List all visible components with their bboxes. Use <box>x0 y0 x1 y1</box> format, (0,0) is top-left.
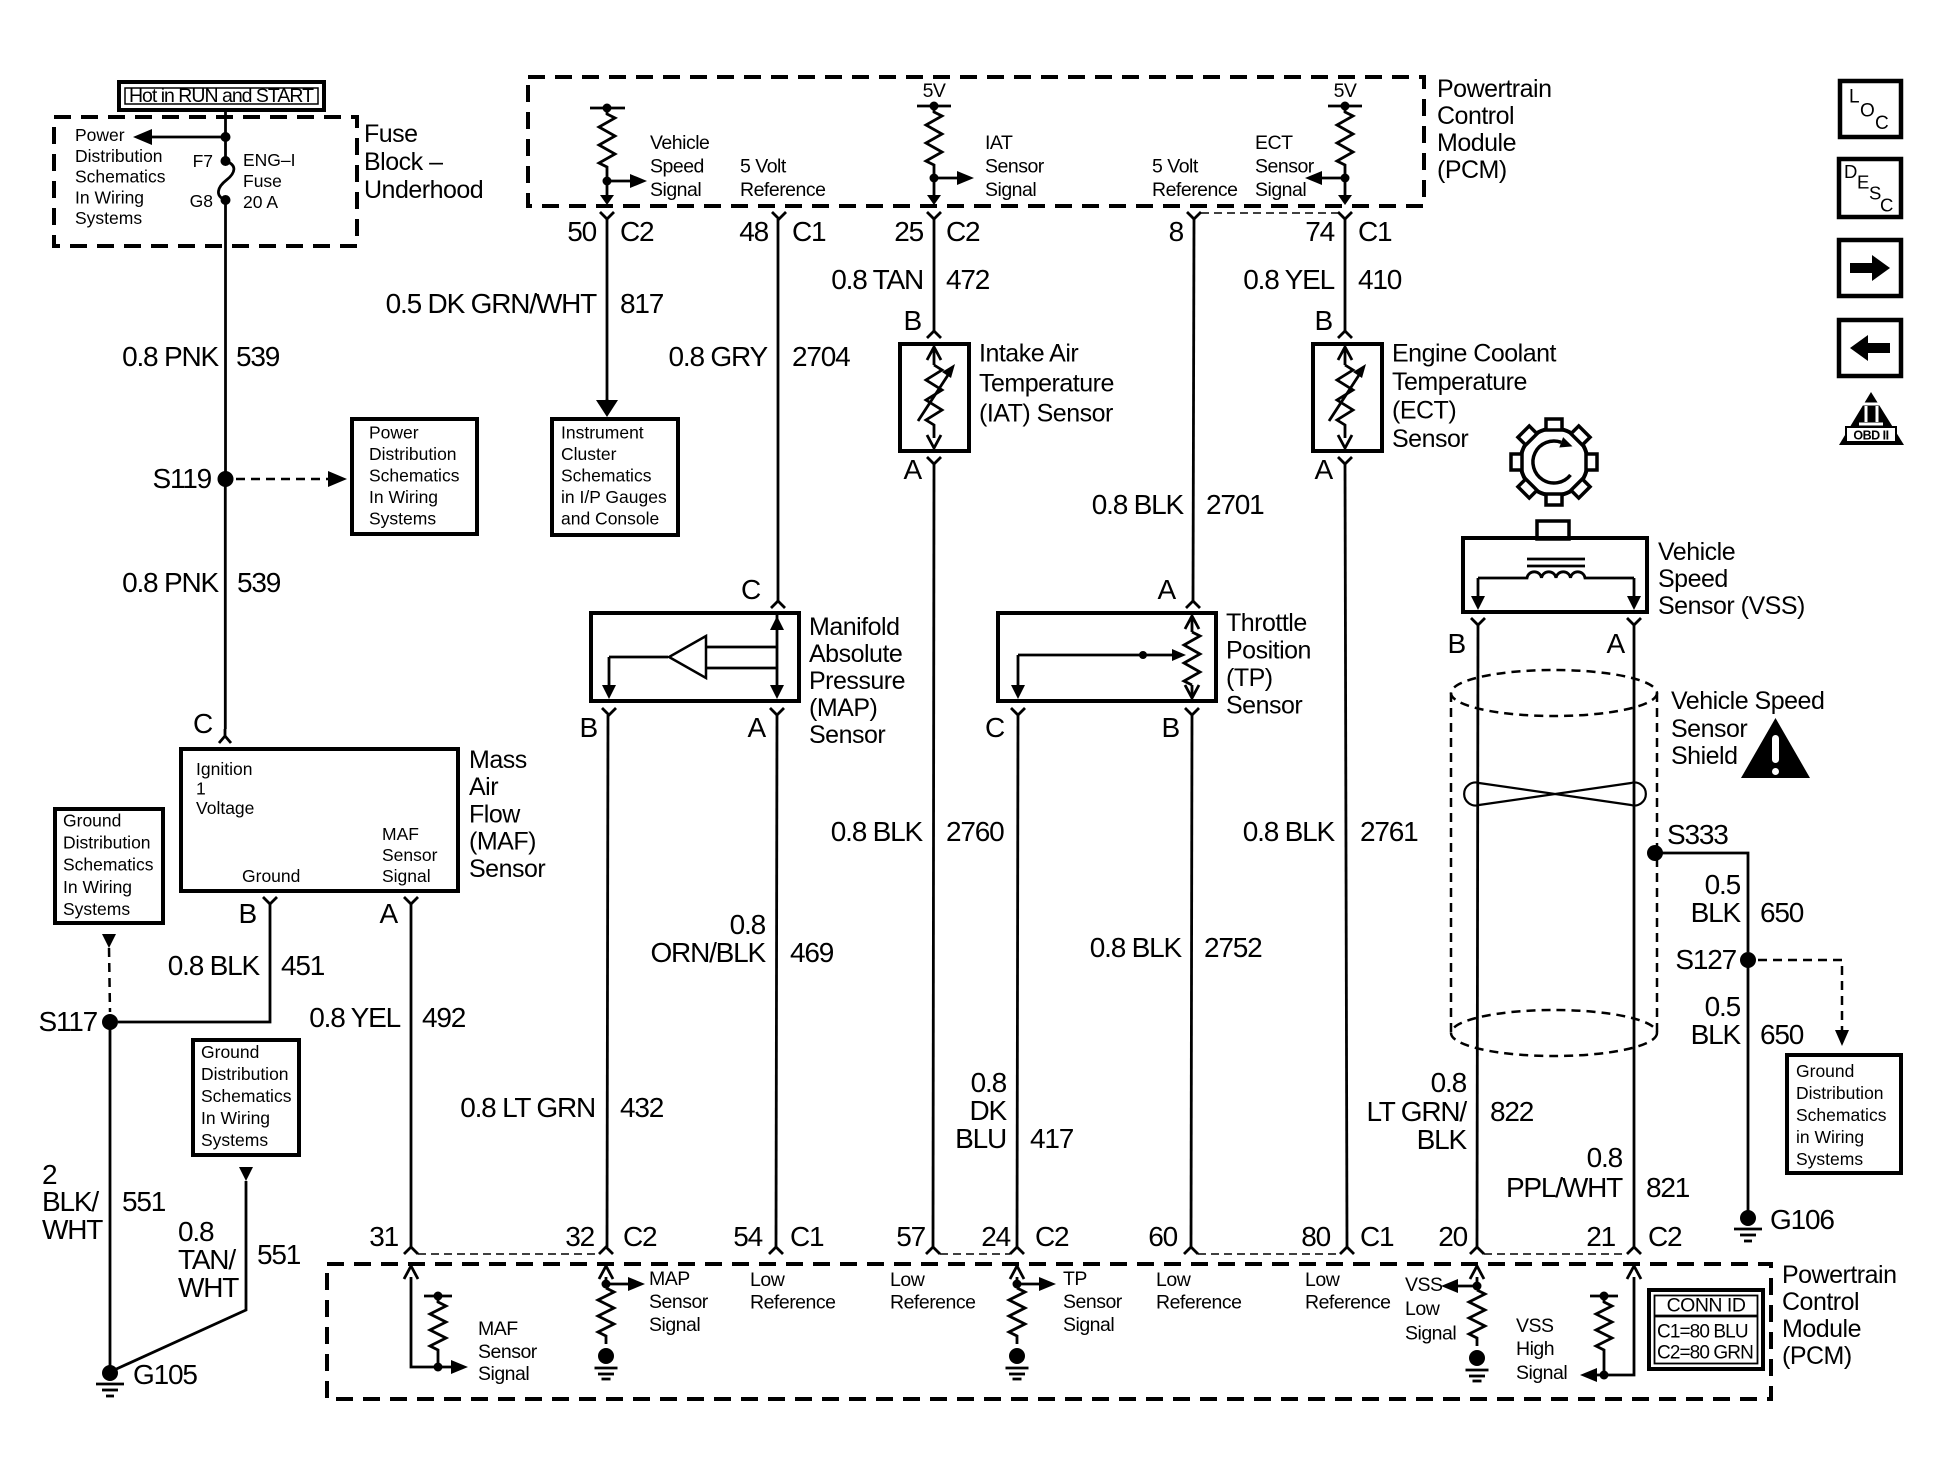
svg-text:BLK/: BLK/ <box>42 1186 99 1217</box>
svg-text:Block –: Block – <box>364 148 443 176</box>
svg-text:Absolute: Absolute <box>809 640 902 668</box>
svg-text:Sensor: Sensor <box>1226 692 1302 720</box>
svg-text:Flow: Flow <box>469 801 521 829</box>
svg-text:Signal: Signal <box>478 1363 529 1385</box>
svg-text:Vehicle Speed: Vehicle Speed <box>1671 687 1824 715</box>
svg-text:Signal: Signal <box>1063 1314 1114 1336</box>
svg-text:469: 469 <box>790 937 834 968</box>
svg-text:0.8: 0.8 <box>730 909 766 940</box>
svg-text:D: D <box>1844 161 1857 182</box>
svg-text:A: A <box>1158 574 1177 605</box>
svg-text:(PCM): (PCM) <box>1437 156 1507 184</box>
svg-text:Position: Position <box>1226 637 1311 665</box>
svg-text:0.8 TAN: 0.8 TAN <box>831 264 923 295</box>
svg-text:0.8 YEL: 0.8 YEL <box>1243 264 1334 295</box>
svg-text:A: A <box>1315 454 1334 485</box>
svg-text:Pressure: Pressure <box>809 667 905 695</box>
svg-text:Sensor: Sensor <box>1671 715 1747 743</box>
svg-text:C: C <box>985 712 1005 743</box>
svg-text:In Wiring: In Wiring <box>369 487 438 507</box>
svg-text:Schematics: Schematics <box>201 1086 292 1106</box>
svg-text:A: A <box>748 712 767 743</box>
svg-text:in Wiring: in Wiring <box>1796 1127 1864 1147</box>
svg-text:B: B <box>239 898 257 929</box>
svg-text:0.8 BLK: 0.8 BLK <box>1090 932 1183 963</box>
svg-text:0.5 DK GRN/WHT: 0.5 DK GRN/WHT <box>386 288 597 319</box>
svg-text:Ground: Ground <box>1796 1061 1854 1081</box>
svg-text:Reference: Reference <box>750 1292 835 1314</box>
svg-text:LT GRN/: LT GRN/ <box>1367 1096 1468 1127</box>
svg-text:Voltage: Voltage <box>196 798 254 818</box>
svg-text:0.8: 0.8 <box>1587 1142 1623 1173</box>
svg-text:Systems: Systems <box>201 1130 268 1150</box>
svg-text:32: 32 <box>565 1221 594 1252</box>
svg-text:C2: C2 <box>1648 1221 1682 1252</box>
svg-text:B: B <box>1162 712 1180 743</box>
svg-text:Vehicle: Vehicle <box>1658 538 1735 566</box>
svg-text:Signal: Signal <box>649 1314 700 1336</box>
svg-text:822: 822 <box>1490 1096 1534 1127</box>
svg-text:451: 451 <box>281 950 325 981</box>
svg-text:Vehicle: Vehicle <box>650 132 709 154</box>
svg-text:BLK: BLK <box>1691 897 1742 928</box>
svg-text:Temperature: Temperature <box>1392 368 1527 396</box>
svg-text:C: C <box>1880 195 1893 216</box>
svg-text:Schematics: Schematics <box>63 855 154 875</box>
svg-text:C: C <box>741 574 761 605</box>
svg-text:Reference: Reference <box>740 179 825 201</box>
svg-text:O: O <box>1860 101 1875 122</box>
svg-text:S119: S119 <box>152 463 211 494</box>
svg-text:Distribution: Distribution <box>201 1064 289 1084</box>
svg-text:TAN/: TAN/ <box>178 1244 236 1275</box>
svg-text:A: A <box>380 898 399 929</box>
svg-text:0.8: 0.8 <box>178 1216 214 1247</box>
svg-text:ORN/BLK: ORN/BLK <box>650 937 766 968</box>
svg-text:Sensor: Sensor <box>985 156 1045 178</box>
svg-text:54: 54 <box>733 1221 762 1252</box>
svg-text:Sensor: Sensor <box>1063 1291 1123 1313</box>
svg-text:Systems: Systems <box>1796 1149 1863 1169</box>
svg-text:A: A <box>904 454 923 485</box>
svg-text:Fuse: Fuse <box>243 171 282 191</box>
svg-text:60: 60 <box>1148 1221 1177 1252</box>
svg-text:C2: C2 <box>623 1221 657 1252</box>
svg-text:BLK: BLK <box>1417 1124 1468 1155</box>
svg-text:Sensor: Sensor <box>1392 425 1468 453</box>
svg-text:B: B <box>904 305 922 336</box>
svg-text:MAF: MAF <box>478 1318 518 1340</box>
svg-text:(MAF): (MAF) <box>469 828 536 856</box>
svg-text:(ECT): (ECT) <box>1392 397 1456 425</box>
svg-text:650: 650 <box>1760 897 1804 928</box>
svg-text:Speed: Speed <box>1658 565 1728 593</box>
svg-text:Low: Low <box>1156 1269 1192 1291</box>
svg-text:2761: 2761 <box>1360 816 1418 847</box>
svg-text:MAF: MAF <box>382 824 419 844</box>
svg-text:Systems: Systems <box>63 899 130 919</box>
svg-text:Speed: Speed <box>650 156 704 178</box>
svg-text:ECT: ECT <box>1255 132 1293 154</box>
svg-text:539: 539 <box>237 567 281 598</box>
svg-text:Instrument: Instrument <box>561 423 644 443</box>
svg-text:Systems: Systems <box>369 509 436 529</box>
svg-text:Sensor: Sensor <box>649 1291 709 1313</box>
svg-text:2760: 2760 <box>946 816 1004 847</box>
svg-text:Throttle: Throttle <box>1226 609 1307 637</box>
svg-text:OBD II: OBD II <box>1853 429 1888 443</box>
svg-text:817: 817 <box>620 288 664 319</box>
svg-text:48: 48 <box>739 216 768 247</box>
svg-text:Schematics: Schematics <box>561 466 652 486</box>
svg-text:Sensor: Sensor <box>1255 156 1315 178</box>
svg-text:Signal: Signal <box>382 866 431 886</box>
svg-text:Ground: Ground <box>201 1042 259 1062</box>
svg-text:551: 551 <box>257 1239 301 1270</box>
svg-text:Temperature: Temperature <box>979 370 1114 398</box>
svg-text:VSS: VSS <box>1516 1315 1554 1337</box>
svg-text:G106: G106 <box>1770 1204 1834 1235</box>
svg-text:S333: S333 <box>1667 819 1728 850</box>
svg-text:Engine Coolant: Engine Coolant <box>1392 340 1557 368</box>
svg-text:B: B <box>1315 305 1333 336</box>
svg-text:In Wiring: In Wiring <box>75 187 144 207</box>
svg-text:Power: Power <box>75 125 125 145</box>
svg-text:(IAT) Sensor: (IAT) Sensor <box>979 400 1113 428</box>
svg-text:C1: C1 <box>792 216 826 247</box>
svg-text:74: 74 <box>1305 216 1334 247</box>
svg-text:In Wiring: In Wiring <box>63 877 132 897</box>
svg-text:410: 410 <box>1358 264 1402 295</box>
svg-text:0.8 LT GRN: 0.8 LT GRN <box>460 1092 595 1123</box>
svg-text:(TP): (TP) <box>1226 664 1273 692</box>
svg-text:Ground: Ground <box>242 866 300 886</box>
svg-text:ENG–I: ENG–I <box>243 150 296 170</box>
svg-text:Powertrain: Powertrain <box>1437 75 1552 103</box>
svg-text:Signal: Signal <box>1405 1323 1456 1345</box>
svg-text:Distribution: Distribution <box>1796 1083 1884 1103</box>
svg-text:WHT: WHT <box>178 1272 239 1303</box>
svg-text:Fuse: Fuse <box>364 120 418 148</box>
svg-text:Cluster: Cluster <box>561 444 617 464</box>
svg-text:Signal: Signal <box>1516 1362 1567 1384</box>
svg-text:0.5: 0.5 <box>1705 991 1741 1022</box>
svg-text:B: B <box>580 712 598 743</box>
svg-text:VSS: VSS <box>1405 1274 1443 1296</box>
svg-text:and Console: and Console <box>561 509 659 529</box>
svg-text:Sensor: Sensor <box>382 845 438 865</box>
svg-text:Sensor: Sensor <box>478 1341 538 1363</box>
svg-text:2701: 2701 <box>1206 489 1264 520</box>
svg-text:Ignition: Ignition <box>196 759 252 779</box>
svg-text:5V: 5V <box>1334 80 1357 102</box>
svg-text:In Wiring: In Wiring <box>201 1108 270 1128</box>
svg-text:S127: S127 <box>1675 944 1736 975</box>
svg-text:WHT: WHT <box>42 1214 103 1245</box>
svg-text:Underhood: Underhood <box>364 176 483 204</box>
svg-text:L: L <box>1849 87 1860 108</box>
svg-text:C1: C1 <box>1360 1221 1394 1252</box>
svg-text:C: C <box>193 708 213 739</box>
svg-text:Signal: Signal <box>1255 179 1306 201</box>
svg-text:Reference: Reference <box>1156 1292 1241 1314</box>
svg-text:Control: Control <box>1437 102 1514 130</box>
svg-text:(MAP): (MAP) <box>809 694 877 722</box>
svg-text:20 A: 20 A <box>243 192 278 212</box>
svg-text:1: 1 <box>196 779 206 799</box>
svg-text:24: 24 <box>981 1221 1010 1252</box>
svg-text:BLU: BLU <box>955 1123 1006 1154</box>
svg-text:CONN ID: CONN ID <box>1667 1295 1746 1317</box>
svg-text:821: 821 <box>1646 1172 1690 1203</box>
svg-text:E: E <box>1857 172 1869 193</box>
svg-text:C1=80 BLU: C1=80 BLU <box>1657 1322 1748 1343</box>
svg-text:C2: C2 <box>620 216 654 247</box>
svg-text:Sensor (VSS): Sensor (VSS) <box>1658 592 1805 620</box>
svg-text:C2: C2 <box>946 216 980 247</box>
svg-text:Module: Module <box>1437 129 1516 157</box>
svg-text:2704: 2704 <box>792 341 850 372</box>
svg-text:Signal: Signal <box>650 179 701 201</box>
svg-text:Intake Air: Intake Air <box>979 340 1078 368</box>
svg-text:20: 20 <box>1438 1221 1467 1252</box>
svg-text:2752: 2752 <box>1204 932 1262 963</box>
svg-text:G105: G105 <box>133 1359 197 1390</box>
svg-text:DK: DK <box>970 1095 1008 1126</box>
svg-text:C1: C1 <box>1358 216 1392 247</box>
svg-text:80: 80 <box>1301 1221 1330 1252</box>
svg-text:25: 25 <box>894 216 923 247</box>
svg-text:Signal: Signal <box>985 179 1036 201</box>
svg-text:Reference: Reference <box>890 1292 975 1314</box>
svg-text:PPL/WHT: PPL/WHT <box>1506 1172 1623 1203</box>
svg-text:Shield: Shield <box>1671 742 1738 770</box>
svg-text:S117: S117 <box>38 1006 97 1037</box>
svg-text:0.8 PNK: 0.8 PNK <box>122 341 219 372</box>
svg-text:432: 432 <box>620 1092 664 1123</box>
svg-text:C2=80 GRN: C2=80 GRN <box>1657 1343 1753 1364</box>
svg-text:Low: Low <box>1305 1269 1341 1291</box>
svg-text:0.8 YEL: 0.8 YEL <box>309 1002 400 1033</box>
svg-text:0.5: 0.5 <box>1705 869 1741 900</box>
svg-text:Distribution: Distribution <box>369 444 457 464</box>
svg-text:Reference: Reference <box>1152 179 1237 201</box>
svg-text:C1: C1 <box>790 1221 824 1252</box>
svg-text:C: C <box>1875 113 1889 134</box>
svg-text:F7: F7 <box>193 151 213 171</box>
svg-text:0.8 GRY: 0.8 GRY <box>669 341 769 372</box>
svg-text:417: 417 <box>1030 1123 1074 1154</box>
svg-text:31: 31 <box>369 1221 398 1252</box>
svg-text:Low: Low <box>890 1269 926 1291</box>
svg-text:57: 57 <box>896 1221 925 1252</box>
svg-text:0.8 BLK: 0.8 BLK <box>831 816 924 847</box>
svg-text:Schematics: Schematics <box>75 167 166 187</box>
svg-text:492: 492 <box>422 1002 466 1033</box>
svg-text:5V: 5V <box>923 80 946 102</box>
svg-text:BLK: BLK <box>1691 1019 1742 1050</box>
svg-text:B: B <box>1448 628 1466 659</box>
svg-text:High: High <box>1516 1338 1554 1360</box>
svg-text:Distribution: Distribution <box>63 833 151 853</box>
svg-text:IAT: IAT <box>985 132 1013 154</box>
svg-text:Hot in RUN and START: Hot in RUN and START <box>129 85 314 107</box>
svg-text:0.8: 0.8 <box>1431 1067 1467 1098</box>
svg-text:Distribution: Distribution <box>75 146 163 166</box>
svg-text:Low: Low <box>750 1269 786 1291</box>
svg-text:Schematics: Schematics <box>369 466 460 486</box>
svg-text:MAP: MAP <box>649 1268 690 1290</box>
svg-text:C2: C2 <box>1035 1221 1069 1252</box>
svg-text:G8: G8 <box>190 191 213 211</box>
svg-text:(PCM): (PCM) <box>1782 1342 1852 1370</box>
svg-text:Low: Low <box>1405 1298 1441 1320</box>
svg-text:5 Volt: 5 Volt <box>740 156 787 178</box>
svg-text:0.8 BLK: 0.8 BLK <box>1092 489 1185 520</box>
svg-text:Air: Air <box>469 773 498 801</box>
svg-text:Power: Power <box>369 423 419 443</box>
svg-text:Powertrain: Powertrain <box>1782 1261 1897 1289</box>
svg-text:Ground: Ground <box>63 811 121 831</box>
svg-text:Reference: Reference <box>1305 1292 1390 1314</box>
svg-text:50: 50 <box>567 216 596 247</box>
svg-text:21: 21 <box>1586 1221 1615 1252</box>
svg-text:472: 472 <box>946 264 990 295</box>
svg-text:Control: Control <box>1782 1288 1859 1316</box>
svg-text:551: 551 <box>122 1186 166 1217</box>
svg-text:5 Volt: 5 Volt <box>1152 156 1199 178</box>
svg-text:650: 650 <box>1760 1019 1804 1050</box>
svg-text:A: A <box>1607 628 1626 659</box>
svg-text:Sensor: Sensor <box>469 855 545 883</box>
svg-text:Manifold: Manifold <box>809 613 900 641</box>
svg-text:539: 539 <box>236 341 280 372</box>
svg-text:Systems: Systems <box>75 208 142 228</box>
svg-text:Schematics: Schematics <box>1796 1105 1887 1125</box>
svg-text:8: 8 <box>1169 216 1184 247</box>
svg-text:0.8: 0.8 <box>971 1067 1007 1098</box>
svg-text:Mass: Mass <box>469 746 527 774</box>
svg-text:TP: TP <box>1063 1268 1087 1290</box>
svg-text:Module: Module <box>1782 1315 1861 1343</box>
svg-text:0.8 BLK: 0.8 BLK <box>1243 816 1336 847</box>
svg-text:0.8 BLK: 0.8 BLK <box>168 950 261 981</box>
svg-text:0.8 PNK: 0.8 PNK <box>122 567 219 598</box>
svg-text:in I/P Gauges: in I/P Gauges <box>561 487 667 507</box>
svg-text:Sensor: Sensor <box>809 721 885 749</box>
